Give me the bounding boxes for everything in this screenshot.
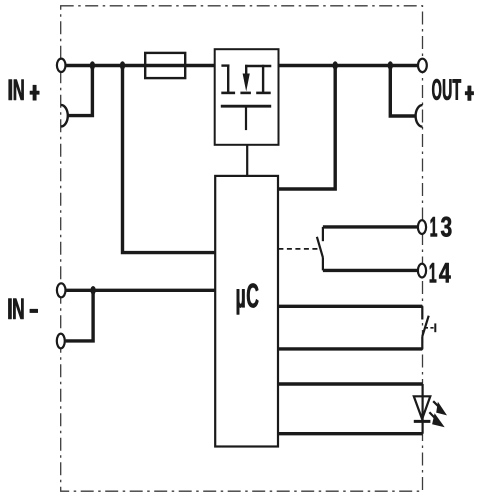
wire uC to switch S2 bottom [278, 347, 422, 350]
junction dot IN- branch [90, 286, 95, 295]
switch S2 blade [422, 316, 428, 337]
terminal 14 [418, 264, 426, 278]
label 13 [431, 217, 452, 237]
transistor Q1 channel left [221, 92, 235, 95]
LED D1 light arrow 1 [433, 401, 447, 415]
wire dashed uC drive link [278, 248, 317, 250]
transistor Q1 source lead [262, 65, 264, 93]
junction dot IN+ branch [90, 61, 95, 70]
switch S1 fixed lead top [322, 227, 324, 241]
transistor Q1 body arrow [243, 74, 250, 92]
wire IN+ lower branch [68, 66, 93, 116]
label 14 [430, 263, 451, 282]
terminal IN- lower [57, 334, 65, 349]
LED D1 anode lead [422, 384, 424, 421]
junction dot sense line [120, 61, 125, 70]
label IN- [8, 299, 37, 319]
terminal OUT+ upper [418, 59, 427, 72]
wire uC to contact 13 [323, 225, 418, 228]
label OUT+ [432, 79, 473, 101]
transistor Q1 channel right [256, 92, 271, 95]
wire uC to LED top [278, 382, 422, 385]
transistor Q1 body lead [245, 65, 247, 76]
switch S1 blade [317, 237, 323, 258]
junction dot OUT+ branch [388, 61, 393, 70]
wire main IN+ to MOSFET [66, 64, 215, 67]
fuse F1 [145, 53, 185, 78]
LED D1 light arrow 2 [429, 412, 444, 427]
IC U1 microcontroller box [215, 176, 278, 447]
switch S2 actuator link [425, 327, 434, 329]
junction dot feedback [333, 61, 338, 70]
terminal IN+ upper [57, 59, 66, 72]
enclosure dash-dot border [61, 6, 423, 491]
LED D1 triangle [414, 396, 431, 419]
wire feedback from main to uC [278, 66, 335, 190]
transistor Q1 channel middle [240, 92, 251, 95]
terminal 13 [418, 220, 426, 234]
switch S2 actuator bar [434, 323, 436, 332]
terminal OUT+ lower half [416, 105, 423, 127]
transistor Q1 gate lead [245, 106, 247, 130]
wire gate link to uC [246, 145, 248, 176]
LED D1 cathode lead [422, 421, 424, 434]
wire uC to switch S2 top [278, 305, 422, 308]
label IN+ [9, 80, 40, 101]
terminal IN+ lower half [61, 105, 68, 127]
wire IN- lower branch [66, 290, 94, 341]
wire sense line to uC pin [123, 66, 216, 253]
transistor Q1 gate bar [221, 105, 271, 108]
wire IN- to uC [66, 289, 215, 292]
wire OUT+ lower branch [390, 66, 416, 117]
wire uC to contact 14 [323, 269, 418, 272]
label uC [237, 283, 259, 314]
transistor Q1 drain lead [227, 65, 229, 93]
LED D1 cathode bar [414, 420, 431, 423]
switch S2 lower lead [421, 336, 423, 349]
wire main MOSFET to OUT+ [279, 64, 418, 67]
wire uC to LED bottom [278, 432, 422, 435]
transistor Q1 top bar [245, 65, 271, 67]
transistor Q1 box [215, 49, 279, 145]
switch S1 lower lead [322, 258, 324, 271]
transistor Q1 drain bar [221, 64, 229, 66]
switch S2 fixed lead top [421, 306, 423, 319]
terminal IN- upper [57, 283, 66, 297]
